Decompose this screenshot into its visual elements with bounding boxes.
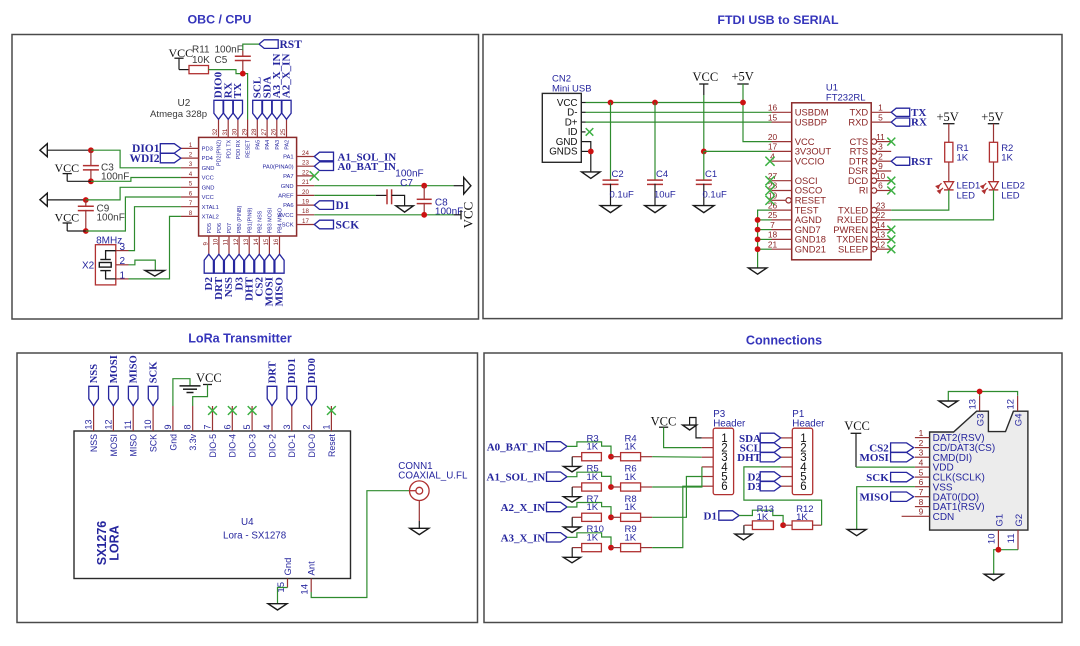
svg-text:DIO-0: DIO-0: [307, 434, 317, 458]
junction: [977, 389, 983, 395]
U2 pin 16 PB4 MISO: [279, 236, 281, 254]
connector CONN1 COAXIAL_U.FL: [410, 481, 430, 501]
svg-text:XTAL1: XTAL1: [202, 205, 219, 211]
resistor R7 1K: [582, 513, 602, 521]
net flag NSS: [224, 254, 233, 273]
SD pin 11 G2: [1017, 530, 1019, 550]
U2 pin 14 PB2 NSS: [258, 236, 260, 254]
no-connect: [887, 177, 895, 185]
U4 pin 13 NSS: [93, 406, 95, 431]
svg-text:Header: Header: [792, 418, 825, 429]
net flag CS2: [255, 254, 264, 273]
svg-text:22: 22: [302, 169, 309, 176]
svg-text:C5: C5: [215, 55, 228, 66]
resistor R9 1K: [621, 544, 641, 552]
P3 pin 6: [702, 485, 714, 487]
ground: [600, 206, 621, 213]
U2 pin 4 VCC: [181, 177, 199, 179]
svg-text:29: 29: [241, 128, 248, 135]
svg-text:PD6: PD6: [217, 223, 223, 234]
wire VCC to P3 pin2: [664, 427, 702, 447]
svg-text:CDN: CDN: [933, 512, 955, 523]
U4 pin 15 Gnd: [287, 579, 289, 588]
svg-text:18: 18: [302, 208, 309, 215]
svg-text:5: 5: [919, 467, 924, 477]
U1 pin 15 USBDP: [772, 121, 792, 123]
svg-text:DIO-4: DIO-4: [228, 434, 238, 458]
svg-text:100nF: 100nF: [97, 212, 125, 223]
svg-text:10uF: 10uF: [654, 189, 676, 200]
svg-text:9: 9: [919, 507, 924, 517]
net flag RST: [891, 157, 910, 165]
wire XTAL1: [129, 207, 181, 251]
frame: section border FTDI: [483, 35, 1062, 319]
svg-text:PA1: PA1: [283, 155, 294, 161]
net flag A0_BAT_IN: [314, 162, 333, 171]
SD pin 9 CDN: [902, 515, 930, 517]
ground: [582, 172, 601, 179]
net flag DRT: [214, 254, 223, 273]
wire: [758, 248, 772, 250]
net flag RX: [224, 100, 233, 119]
svg-text:5: 5: [189, 181, 193, 188]
junction: [701, 149, 707, 155]
junction: [996, 547, 1002, 553]
ground: [396, 206, 414, 212]
net flag DHT: [245, 254, 254, 273]
op-amp U1 FT232RL body: [792, 103, 872, 260]
wire +5V to R1: [948, 124, 950, 143]
svg-text:GND: GND: [202, 166, 215, 172]
SD pin 10 G1: [997, 530, 999, 550]
junction: [240, 71, 246, 77]
U1 pin 7 GND7: [772, 229, 792, 231]
svg-text:1: 1: [919, 428, 924, 438]
U1 pin 6 RI: [871, 188, 876, 193]
wire A0_BAT_IN to junction: [567, 442, 611, 457]
wire D+ to USBDP: [586, 121, 772, 123]
svg-text:1K: 1K: [625, 442, 637, 453]
net flag DIO1: [287, 386, 297, 406]
svg-text:32: 32: [212, 128, 219, 135]
svg-text:1K: 1K: [757, 512, 769, 523]
svg-text:XTAL2: XTAL2: [202, 215, 219, 221]
svg-text:PA0(PINA0): PA0(PINA0): [262, 164, 293, 170]
junction: [608, 484, 614, 490]
frame: section border OBC/CPU: [12, 35, 479, 320]
net flag DIO1: [160, 144, 181, 153]
net flag MOSI: [109, 386, 119, 406]
svg-text:24: 24: [302, 150, 309, 157]
svg-text:13: 13: [876, 230, 886, 240]
U2 pin 17 SCK: [297, 224, 315, 226]
wire GND to ground: [586, 142, 591, 172]
resistor R11 10K: [189, 66, 209, 74]
junction: [83, 197, 89, 203]
svg-text:21: 21: [768, 239, 778, 249]
svg-text:12: 12: [876, 239, 886, 249]
svg-text:SCK: SCK: [149, 434, 159, 452]
junction: [608, 454, 614, 460]
svg-text:2: 2: [919, 438, 924, 448]
svg-text:3: 3: [282, 424, 292, 429]
svg-text:6: 6: [878, 181, 883, 191]
svg-text:23: 23: [302, 160, 309, 167]
junction: [755, 227, 761, 233]
U1 pin 17 3V3OUT: [772, 150, 792, 152]
svg-text:G1: G1: [994, 514, 1005, 527]
svg-text:MOSI: MOSI: [109, 434, 119, 456]
U2 pin 31 PD1 TX: [227, 120, 229, 138]
svg-text:20: 20: [302, 189, 309, 196]
svg-text:PA7: PA7: [283, 174, 294, 180]
wire R6 to P3 pin4: [652, 467, 702, 487]
svg-text:PD1 TX: PD1 TX: [226, 140, 232, 159]
wire VCC to VDD: [855, 433, 857, 467]
svg-text:4: 4: [262, 424, 272, 429]
svg-text:100nF: 100nF: [101, 171, 129, 182]
wire A1_SOL_IN to junction: [567, 472, 611, 487]
svg-text:3: 3: [120, 242, 126, 253]
U2 pin 5 GND: [181, 186, 199, 188]
U1 pin 20 VCC: [772, 141, 792, 143]
wire C7 to ground: [392, 195, 405, 205]
crystal X2 8MHz: [95, 245, 115, 285]
svg-text:10: 10: [876, 171, 886, 181]
wire R2 to LED2: [993, 162, 995, 182]
svg-text:Lora - SX1278: Lora - SX1278: [223, 531, 287, 542]
module U4 Lora SX1278 body: [74, 431, 351, 579]
U1 pin 16 USBDM: [772, 111, 792, 113]
no-connect: [208, 406, 217, 415]
svg-text:0.1uF: 0.1uF: [610, 189, 634, 200]
wire crystal pin2 to ground: [129, 260, 156, 270]
svg-text:17: 17: [302, 218, 309, 225]
svg-text:GND: GND: [202, 185, 215, 191]
P1 pin 6: [781, 485, 793, 487]
U1 pin 19 RESET: [772, 199, 787, 201]
U1 pin 9 DSR: [871, 168, 876, 173]
U2 pin 25 PA2: [286, 120, 288, 138]
junction: [421, 212, 427, 218]
capacitor C5 100nF: [235, 55, 251, 57]
P3 pin 5: [702, 476, 714, 478]
capacitor C9 100nF: [85, 200, 87, 206]
ground: [268, 604, 287, 610]
wire pin14 Ant to CONN1: [311, 491, 409, 598]
U2 pin 7 XTAL1: [181, 206, 199, 208]
svg-text:2: 2: [302, 424, 312, 429]
net flag SCK: [148, 386, 158, 406]
svg-text:C4: C4: [656, 169, 668, 180]
svg-text:3: 3: [919, 447, 924, 457]
net flag A1_SOL_IN: [314, 152, 333, 161]
svg-text:1: 1: [321, 424, 331, 429]
SD pin 1 DAT2(RSV): [915, 437, 930, 439]
frame: section border LoRa: [17, 353, 478, 623]
svg-text:2: 2: [878, 151, 883, 161]
P3 pin 3: [702, 456, 714, 458]
junction: [755, 237, 761, 243]
SD pin 2 CD/DAT3(CS): [915, 447, 930, 449]
net flag D1: [719, 511, 739, 520]
U2 pin 26 PA3: [276, 120, 278, 138]
wire R7 to ground: [571, 517, 573, 527]
ground: [563, 497, 580, 503]
U1 pin 3 RTS: [871, 149, 876, 154]
svg-text:RESET: RESET: [246, 139, 252, 158]
no-connect ID: [586, 128, 594, 136]
svg-text:11: 11: [876, 132, 885, 142]
wire TEST-AGND-GND bus: [758, 210, 772, 268]
U2 pin 20 AREF: [297, 194, 315, 196]
resistor R2 1K: [989, 142, 997, 162]
U4 pin 5 DIO-3: [251, 406, 253, 431]
U2 pin 9 PD5: [208, 236, 210, 254]
svg-text:1K: 1K: [587, 472, 599, 483]
svg-text:16: 16: [273, 238, 280, 245]
junction: [608, 100, 614, 106]
net flag D3: [760, 482, 781, 491]
svg-text:GNDS: GNDS: [549, 147, 578, 158]
svg-text:D1: D1: [704, 510, 717, 522]
wire P3 pin1 to ground: [690, 418, 702, 438]
off-page arrow: [464, 177, 471, 194]
U4 pin 11 MISO: [132, 406, 134, 431]
wire XTAL2: [129, 216, 181, 279]
no-connect: [248, 406, 257, 415]
net flag SCK: [891, 472, 914, 481]
wire +5V to pin20: [743, 84, 772, 142]
U2 pin 29 RESET: [247, 120, 249, 138]
svg-text:C2: C2: [612, 169, 624, 180]
wire VSS to ground: [857, 487, 915, 530]
U4 pin 14 Ant: [310, 579, 312, 593]
resistor R10 1K: [582, 544, 602, 552]
resistor R4 1K: [621, 453, 641, 461]
ground: [410, 528, 429, 534]
svg-text:TX: TX: [232, 83, 244, 98]
svg-text:C7: C7: [400, 178, 413, 189]
svg-text:6: 6: [222, 424, 232, 429]
resistor R13 1K: [752, 521, 773, 530]
svg-text:PD5: PD5: [207, 223, 213, 234]
U2 pin 19 PA6: [297, 204, 315, 206]
svg-text:A0_BAT_IN: A0_BAT_IN: [487, 441, 546, 453]
resistor R5 1K: [582, 483, 602, 491]
connector P3 Header: [713, 428, 733, 494]
wire VCC to R11: [179, 69, 189, 71]
U4 pin 9 Gnd: [172, 406, 174, 431]
P1 pin 3: [781, 456, 793, 458]
svg-text:VCCIO: VCCIO: [795, 155, 825, 166]
resistor R8 1K: [621, 513, 641, 521]
svg-text:100nF: 100nF: [435, 207, 463, 218]
U1 pin 21 GND21: [772, 248, 792, 250]
U4 pin 3 DIO-1: [291, 406, 293, 431]
svg-text:MISO: MISO: [274, 277, 286, 307]
svg-text:RI: RI: [859, 185, 868, 196]
no-connect: [887, 187, 895, 195]
svg-text:C1: C1: [705, 169, 717, 180]
wire R10 to ground: [571, 548, 573, 558]
U2 pin 23 PA0(PINA0): [297, 165, 315, 167]
svg-text:A1_SOL_IN: A1_SOL_IN: [487, 472, 546, 484]
wire G3-G4 to ground: [980, 392, 1018, 396]
svg-text:1K: 1K: [625, 502, 637, 513]
net flag SCK: [314, 220, 333, 229]
svg-text:12: 12: [103, 419, 113, 429]
wire arrow to C9: [47, 199, 86, 201]
no-connect VCCIO: [765, 157, 774, 166]
P1 pin 5: [781, 476, 793, 478]
wire A2_X_IN to junction: [567, 503, 611, 518]
net flag NSS: [89, 386, 99, 406]
svg-text:NSS: NSS: [89, 434, 99, 452]
svg-text:3: 3: [878, 142, 883, 152]
U2 pin 10 PD6: [218, 236, 220, 254]
U2 pin 24 PA1: [297, 156, 315, 158]
svg-text:6: 6: [721, 481, 727, 493]
SD pin 4 VDD: [915, 466, 930, 468]
net flag MISO: [275, 254, 284, 273]
svg-text:VCC: VCC: [693, 70, 719, 84]
net flag D2: [204, 254, 213, 273]
svg-text:GND: GND: [281, 184, 294, 190]
off-page arrow: [40, 144, 47, 157]
svg-text:27: 27: [261, 128, 268, 135]
svg-text:1K: 1K: [1001, 153, 1013, 164]
svg-text:A3_X_IN: A3_X_IN: [501, 532, 546, 544]
U4 pin 6 DIO-4: [231, 406, 233, 431]
wire AREF to C7: [314, 194, 376, 196]
U2 pin 15 PB3 MOSI: [268, 236, 270, 254]
net flag A2_X_IN: [547, 502, 568, 511]
svg-text:WDI2: WDI2: [129, 153, 159, 165]
SD pin 8 DAT1(RSV): [915, 506, 930, 508]
svg-text:Header: Header: [713, 418, 746, 429]
wire to pin3 GND: [91, 150, 181, 168]
svg-text:10: 10: [213, 238, 220, 245]
net flag D1: [314, 201, 333, 210]
capacitor C7 100nF: [386, 189, 388, 204]
wire LED2 to RXLED: [891, 190, 993, 220]
U2 pin 3 GND: [181, 167, 199, 169]
resistor R12 1K: [792, 521, 813, 530]
svg-text:PD7: PD7: [227, 223, 233, 234]
svg-text:6: 6: [189, 190, 193, 197]
P1 pin 2: [781, 447, 793, 449]
svg-text:X2: X2: [82, 260, 95, 271]
no-connect: [887, 245, 895, 253]
U2 pin 1 PD3: [181, 147, 199, 149]
wire D- to USBDM: [586, 111, 772, 113]
net flag MISO: [128, 386, 138, 406]
svg-text:15: 15: [768, 112, 778, 122]
wire arrow to C3: [47, 149, 91, 151]
svg-text:PA6: PA6: [283, 203, 294, 209]
junction: [755, 246, 761, 252]
svg-text:5: 5: [242, 424, 252, 429]
wire R9 to P3 pin6: [652, 486, 702, 547]
no-connect: [887, 226, 895, 234]
junction: [83, 228, 89, 234]
net flag DRT: [267, 386, 277, 406]
svg-text:DRT: DRT: [267, 361, 278, 383]
U1 pin 4 VCCIO: [772, 160, 792, 162]
svg-text:PD4: PD4: [202, 156, 214, 162]
U2 pin 13 PB1(PIN9): [248, 236, 250, 254]
wire 3V3OUT: [704, 150, 772, 152]
net flag MOSI: [891, 453, 914, 462]
wire +5V to R2: [993, 124, 995, 143]
svg-text:PB4 MISO: PB4 MISO: [278, 208, 284, 233]
svg-text:D1: D1: [336, 200, 350, 212]
wire R13 to ground: [743, 525, 745, 534]
wire RST to C5: [243, 44, 259, 50]
svg-text:Reset: Reset: [327, 433, 337, 457]
U1 pin 13 TXDEN: [871, 237, 876, 242]
net flag D3: [235, 254, 244, 273]
svg-text:15: 15: [263, 238, 270, 245]
junction: [740, 100, 746, 106]
wire R5 to ground: [571, 487, 573, 497]
U2 pin 12 PB0 (PINB): [238, 236, 240, 254]
svg-text:DIO0: DIO0: [307, 358, 318, 383]
svg-text:25: 25: [280, 128, 287, 135]
ground: [145, 271, 165, 277]
U2 pin 28 PA5: [256, 120, 258, 138]
svg-text:2: 2: [120, 256, 126, 267]
ground: [563, 466, 580, 472]
svg-text:11: 11: [1006, 534, 1017, 544]
svg-text:G3: G3: [976, 414, 987, 427]
U1 pin 1 TXD: [871, 111, 891, 113]
svg-text:COAXIAL_U.FL: COAXIAL_U.FL: [398, 471, 468, 482]
svg-text:6: 6: [800, 481, 806, 493]
junction: [421, 183, 427, 189]
U1 pin 10 DCD: [871, 178, 876, 183]
net flag TX: [233, 100, 242, 119]
svg-text:SCK: SCK: [149, 361, 160, 383]
svg-text:PA2: PA2: [285, 140, 291, 150]
svg-text:PB2 NSS: PB2 NSS: [257, 210, 263, 233]
svg-text:7: 7: [770, 220, 775, 230]
ground: [563, 557, 580, 563]
svg-text:MISO: MISO: [129, 434, 139, 457]
svg-text:13: 13: [967, 399, 978, 410]
U4 pin 2 DIO-0: [311, 406, 313, 431]
net flag RX: [891, 118, 910, 126]
svg-text:PB3 MOSI: PB3 MOSI: [268, 208, 274, 233]
svg-text:VCC: VCC: [55, 161, 80, 175]
junction: [88, 178, 94, 184]
junction: [652, 100, 658, 106]
svg-text:+5V: +5V: [732, 70, 754, 84]
svg-text:9: 9: [163, 424, 173, 429]
svg-text:14: 14: [253, 238, 260, 245]
svg-text:+5V: +5V: [981, 110, 1003, 124]
wire to pin4 VCC: [91, 178, 181, 182]
svg-text:VCC: VCC: [651, 414, 677, 428]
svg-text:13: 13: [84, 419, 94, 429]
net flag D2: [760, 472, 781, 481]
svg-text:DHT: DHT: [737, 452, 762, 464]
wire: [758, 219, 772, 221]
svg-text:PA5: PA5: [255, 140, 261, 150]
svg-text:RXD: RXD: [848, 116, 868, 127]
diode LED2: [989, 182, 999, 190]
